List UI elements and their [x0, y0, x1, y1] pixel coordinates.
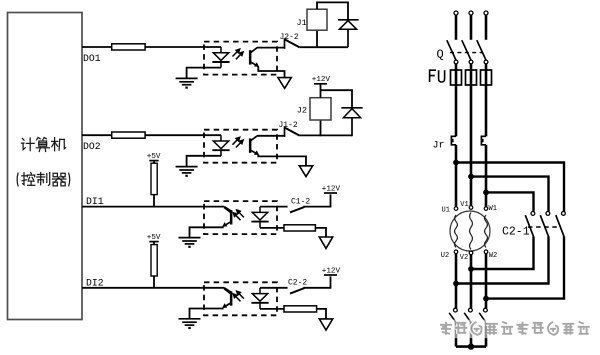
breaker Q pole 2 contact [469, 60, 473, 64]
lower contact pole 2 blade [464, 313, 470, 322]
wire lower bank pole3 down [485, 322, 488, 347]
resistor R5 [284, 225, 315, 231]
contact J2-2 (interlock) [285, 38, 300, 49]
wire U4 LED anode to contact [260, 287, 288, 289]
wire R5 to down arrow [315, 228, 326, 237]
wire phase1 tap to C2-1 pole3 [456, 163, 564, 212]
resistor R6 [284, 306, 317, 312]
flyback diode D2 [341, 108, 362, 136]
wire Q to FU pole 2 [470, 64, 473, 86]
wire FU to Jr pole 2 (straight) [470, 85, 473, 177]
wire contact to +12V row4 [303, 276, 330, 287]
wire DO1 from computer [82, 46, 112, 48]
opto U1 LED [212, 47, 229, 68]
text 算 [36, 138, 49, 152]
wire Q3 emitter to ground [190, 227, 224, 237]
contact C2-1 pole 3 terminal [562, 212, 566, 216]
motor terminal U2 [454, 250, 458, 254]
wire phase2 tap to C2-1 pole2 [471, 177, 549, 212]
wire top rail row2 [321, 84, 353, 108]
flyback diode D1 [338, 20, 359, 47]
opto U3 emission arrows [233, 210, 244, 220]
svg-text:C1-2: C1-2 [291, 198, 310, 207]
wire DI1 from computer to opto [82, 206, 224, 208]
wire Q3 collector diag [224, 207, 230, 211]
svg-text:Q: Q [437, 48, 444, 62]
opto U3 LED [251, 207, 268, 228]
motor terminal V1 [469, 206, 473, 210]
motor winding at x=471 [470, 213, 473, 250]
wire V2 down [470, 255, 473, 308]
wire R3 to DI1 node [153, 195, 155, 207]
svg-text:V2: V2 [460, 254, 468, 262]
wire DO2 from computer [82, 134, 112, 136]
fuse FU pole 1 [451, 70, 462, 85]
lower contact pole 1 terminal [454, 308, 458, 312]
pull-up resistor R4 [151, 245, 157, 276]
contact C2-1 pole 3 blade [556, 215, 564, 236]
breaker Q pole 2 blade [462, 40, 471, 60]
wire DI2 from computer to opto [82, 287, 224, 289]
breaker Q pole 3 blade [477, 40, 486, 60]
thermal relay Jr heater at x=486 [481, 136, 486, 145]
svg-text:DI1: DI1 [86, 196, 104, 207]
node dot phase1 tap [453, 160, 459, 166]
wire +5V to R3 [153, 161, 155, 164]
wire contact to +12V row3 [303, 194, 330, 206]
text 计 [22, 138, 35, 151]
thermal relay Jr heater at x=456 [451, 136, 456, 145]
down arrow row3 [319, 237, 332, 248]
text 器 [52, 173, 65, 186]
wire Q to FU pole 3 [485, 64, 488, 86]
wire lower bank pole2 down [470, 322, 473, 347]
+5V terminal bar row3 [149, 160, 158, 162]
lower contact pole 2 terminal [469, 308, 473, 312]
motor winding at x=486 [485, 215, 488, 248]
wire contact to relay J1 [300, 46, 348, 48]
svg-text:W1: W1 [489, 205, 497, 213]
wire R1 to optocoupler [145, 46, 221, 48]
wire star bar [456, 345, 486, 348]
text ( of (控制器) [17, 173, 18, 187]
relay coil J2 [310, 98, 331, 120]
breaker Q linkage [450, 52, 483, 54]
contact C2-2 [290, 288, 304, 294]
svg-text:+12V: +12V [312, 76, 331, 84]
optocoupler U3 dashed box [204, 201, 277, 234]
wire coil J2 bottom lead [320, 120, 322, 136]
wire R2 to optocoupler [145, 134, 221, 136]
contact C2-1 linkage [528, 226, 560, 228]
opto U2 phototransistor Q2 [249, 136, 259, 155]
node dot star point [468, 343, 474, 349]
watermark 知乎@微博帮冷空调社 [436, 320, 593, 339]
optocoupler U1 dashed box [204, 42, 277, 75]
opto U2 LED [212, 135, 229, 156]
+5V terminal bar row4 [149, 241, 158, 243]
optocoupler U4 dashed box [204, 282, 277, 315]
wire FU to Jr pole 1 [455, 85, 458, 136]
wire L2 to breaker [470, 15, 473, 40]
text 制 [37, 173, 50, 186]
opto U4 LED [251, 288, 268, 309]
wire Jr to motor pole 1 [455, 145, 458, 207]
motor terminal W2 [484, 250, 488, 254]
wire L1 to breaker [455, 15, 458, 40]
svg-text:DO2: DO2 [83, 141, 101, 152]
wire U1 LED cathode to ground [187, 68, 221, 79]
supply terminal L3 [484, 11, 488, 15]
motor terminal V2 [469, 251, 473, 255]
wire L3 to breaker [485, 15, 488, 40]
contact J1-2 (interlock) [285, 126, 300, 137]
opto U1 phototransistor Q1 [249, 48, 259, 67]
node dot phase2 tap [468, 174, 474, 180]
ground G3 [179, 238, 201, 247]
ground G2 [176, 167, 198, 176]
wire pole 2 to motor [470, 177, 473, 206]
wire Q1 emitter to output arrow [258, 66, 284, 77]
lower contact pole 1 blade [449, 313, 455, 322]
svg-text:U1: U1 [442, 206, 450, 214]
wire U2 LED cathode to ground [187, 156, 221, 167]
opto U1 emission arrows [233, 49, 244, 59]
wire Jr to motor pole 3 [485, 145, 488, 207]
wire C2-1 pole3 to W2 [486, 236, 564, 298]
node dot phase3 tap [483, 190, 489, 196]
breaker Q pole 3 contact [484, 60, 488, 64]
computer box 计算机(控制器) [8, 13, 83, 320]
contact C1-2 [290, 207, 304, 213]
pull-up resistor R3 [151, 163, 157, 194]
wire coil J1 bottom lead [316, 30, 318, 48]
resistor R2 [112, 132, 145, 138]
wire R4 to DI2 node [153, 276, 155, 288]
+12V terminal row2 [312, 76, 331, 84]
supply terminal L1 [454, 11, 458, 15]
contact C2-1 pole 1 blade [525, 215, 533, 236]
text 控 [22, 173, 35, 186]
wire Q2 emitter to output arrow [258, 155, 306, 166]
text 机 [52, 138, 66, 151]
+12V terminal row4 [322, 267, 341, 275]
wire phase3 tap to C2-1 pole1 [486, 192, 534, 211]
svg-text:J2: J2 [297, 106, 307, 116]
opto U2 emission arrows [233, 137, 244, 147]
svg-text:DO1: DO1 [83, 53, 101, 64]
wire Q4 emitter to ground [190, 309, 224, 319]
svg-text:J1: J1 [297, 18, 307, 28]
wire W2 down [485, 254, 488, 308]
opto U4 emission arrows [233, 291, 244, 301]
wire FU to Jr pole 3 [485, 85, 488, 136]
wire U3 LED anode to contact [260, 206, 288, 208]
supply terminal L2 [469, 11, 473, 15]
svg-text:+12V: +12V [322, 185, 341, 193]
ground G1 [176, 78, 198, 87]
motor winding at x=456 [455, 215, 458, 248]
motor terminal U1 [454, 207, 458, 211]
resistor R1 [112, 44, 145, 50]
svg-text:+12V: +12V [322, 267, 341, 275]
optocoupler U2 dashed box [204, 130, 277, 163]
down arrow (emitter return) row2 [299, 166, 312, 177]
fuse FU pole 2 [466, 70, 477, 85]
motor terminal W1 [484, 207, 488, 211]
text ) of (控制器) [69, 173, 70, 187]
svg-text:Jr: Jr [433, 141, 445, 152]
motor M stator circle [450, 211, 490, 251]
contact C2-1 pole 2 terminal [546, 212, 550, 216]
down arrow (emitter return) row1 [278, 78, 291, 89]
wire Q4 collector diag [224, 288, 230, 292]
wire U2 down [455, 254, 458, 308]
node dot W2 return [483, 296, 489, 302]
wire top rail row1 [317, 2, 348, 19]
wire Q to FU pole 1 [455, 64, 458, 86]
wire contact to relay J2 [300, 134, 352, 136]
ground G4 [179, 319, 201, 328]
wire U4 LED cathode to R6 [260, 308, 284, 310]
wire C2-1 pole2 to U2 [456, 236, 549, 283]
node dot V2 return [468, 266, 474, 272]
contact C2-1 pole 2 blade [540, 215, 548, 236]
wire C2-1 pole1 to V2 [471, 236, 534, 269]
svg-text:J2-2: J2-2 [280, 33, 299, 42]
contact C2-1 pole 1 terminal [531, 212, 535, 216]
opto U4 phototransistor Q4 [222, 289, 232, 308]
wire lower bank pole1 down [455, 322, 458, 347]
breaker Q pole 1 blade [447, 40, 456, 60]
wire R6 to down arrow [317, 309, 326, 319]
label FU [430, 70, 445, 82]
svg-text:W2: W2 [489, 252, 497, 260]
fuse FU pole 3 [481, 70, 492, 85]
down arrow row4 [319, 319, 332, 330]
+12V terminal row3 [322, 185, 341, 193]
wire U3 LED cathode to R5 [260, 227, 284, 229]
wire +5V to R4 [153, 242, 155, 245]
svg-text:C2-2: C2-2 [288, 279, 307, 288]
breaker Q pole 1 contact [454, 60, 458, 64]
relay coil J1 [307, 9, 327, 30]
lower contact pole 3 blade [479, 313, 485, 322]
svg-text:V1: V1 [460, 201, 468, 209]
opto U3 phototransistor Q3 [222, 208, 232, 227]
svg-text:J1-2: J1-2 [279, 121, 298, 130]
svg-text:U2: U2 [441, 252, 449, 260]
wire Q2 collector to contact [257, 135, 284, 137]
svg-text:C2-1: C2-1 [502, 226, 530, 239]
lower contact pole 3 terminal [484, 308, 488, 312]
node dot U2 return [453, 281, 459, 287]
wire Q1 collector to contact [257, 47, 284, 49]
